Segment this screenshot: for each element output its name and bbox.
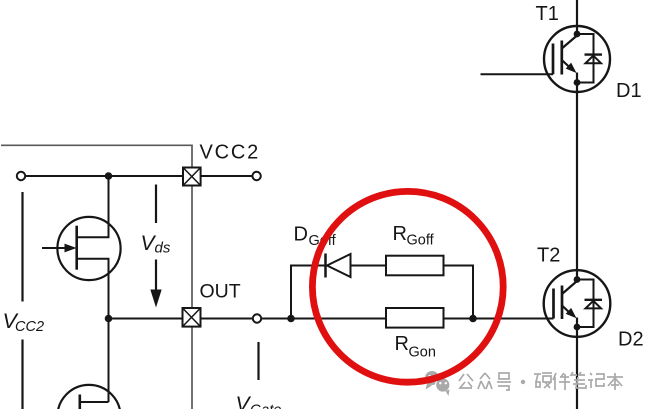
- svg-text:R: R: [395, 333, 409, 355]
- pin VCC2: [183, 168, 201, 186]
- svg-text:Goff: Goff: [407, 233, 435, 249]
- diode D2 (anti-parallel in T2): [577, 280, 602, 328]
- wire OUT pin to terminal: [201, 318, 253, 320]
- svg-text:VCC2: VCC2: [200, 142, 261, 164]
- svg-text:T1: T1: [536, 3, 559, 25]
- wire branch up from OUT rail: [291, 266, 325, 319]
- terminal node left: [17, 172, 25, 180]
- svg-text:ds: ds: [155, 240, 171, 257]
- junction dot on OUT rail: [105, 315, 113, 323]
- wire VCC2 pin to right terminal: [201, 175, 253, 177]
- transistor Q1 (upper MOSFET): [57, 217, 120, 280]
- measurement VCC2 line: [21, 192, 23, 302]
- svg-text:D2: D2: [618, 329, 644, 351]
- diode D1 (anti-parallel in T1): [577, 34, 602, 83]
- wire RGoff down to OUT rail: [444, 266, 474, 319]
- junction dot left: [287, 315, 295, 323]
- wire OUT rail left: [109, 318, 183, 320]
- svg-text:D: D: [294, 224, 308, 246]
- measurement VGate line: [257, 342, 259, 380]
- transistor Q2 (lower MOSFET, partly visible): [57, 385, 120, 409]
- watermark text (hand-drawn CJK approximations): [459, 372, 623, 390]
- svg-text:T2: T2: [537, 245, 560, 267]
- wire Q1 source down to OUT rail: [77, 259, 109, 402]
- measurement Vds dashed line and arrow: [155, 185, 157, 224]
- svg-text:Gate: Gate: [250, 403, 281, 409]
- transistor T1 (IGBT): [544, 26, 610, 92]
- watermark logo: [425, 371, 450, 396]
- pin OUT: [183, 308, 201, 327]
- wire T1 gate stub: [481, 73, 554, 75]
- wire between T1 and T2: [576, 73, 578, 282]
- svg-text:D1: D1: [616, 80, 642, 102]
- resistor RGon: [386, 308, 444, 328]
- terminal node right of VCC2 pin: [252, 172, 260, 180]
- diode DGoff: [324, 254, 327, 278]
- wire collector rail top: [576, 0, 578, 37]
- wire Q1 drain: [77, 175, 109, 237]
- svg-text:CC2: CC2: [15, 319, 44, 335]
- wire diode to RGoff: [351, 265, 387, 267]
- svg-text:R: R: [393, 223, 407, 245]
- terminal node OUT: [253, 314, 261, 322]
- junction dot right: [469, 315, 477, 323]
- resistor RGoff: [386, 256, 444, 276]
- red highlight ellipse: [312, 191, 503, 382]
- junction dot on VCC2 rail: [105, 172, 113, 180]
- wire OUT to T2 gate: [261, 318, 553, 320]
- wire below T2: [576, 318, 578, 409]
- gate driver IC outline: [1, 145, 192, 409]
- transistor T2 (IGBT): [544, 270, 611, 337]
- svg-text:Gon: Gon: [409, 345, 436, 361]
- svg-text:OUT: OUT: [200, 281, 241, 303]
- wire VCC2 rail left: [26, 175, 184, 177]
